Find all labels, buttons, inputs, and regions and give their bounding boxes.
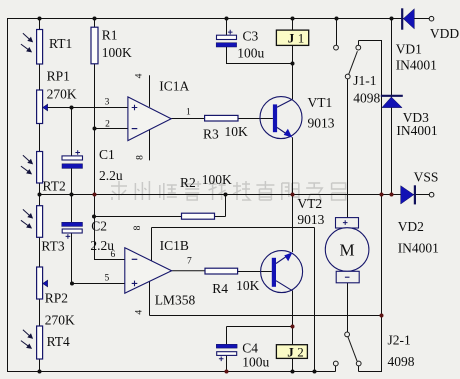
svg-text:RT4: RT4: [47, 334, 70, 349]
transistor Q2 VT2: [261, 251, 303, 293]
relay contact J2-1: [333, 332, 361, 366]
svg-text:8: 8: [133, 225, 143, 230]
svg-text:2: 2: [297, 345, 304, 360]
relay contact J1-1: [334, 45, 361, 79]
transistor Q1 VT1: [260, 97, 302, 139]
wire J1-1 left contact stem: [336, 19, 338, 46]
svg-text:RT1: RT1: [49, 36, 72, 51]
svg-text:R3: R3: [203, 127, 219, 142]
potentiometer RP1: [37, 90, 43, 124]
capacitor C2: [62, 222, 83, 238]
wire left border: [7, 18, 9, 372]
svg-text:J: J: [288, 31, 295, 46]
svg-text:100u: 100u: [242, 355, 269, 370]
wire VT2 emitter up: [292, 195, 294, 253]
pin numbers: [105, 73, 193, 314]
watermark 杭州将睿科技有限公司 (simulated glyph blocks): [111, 181, 346, 200]
wire motor bottom to J2-1 pole: [347, 283, 349, 332]
svg-text:4: 4: [134, 73, 144, 78]
svg-text:4098: 4098: [388, 354, 415, 369]
resistor R4: [205, 268, 238, 274]
wire IC1A pin8 stub: [149, 130, 151, 161]
svg-text:LM358: LM358: [155, 293, 196, 308]
wire IC1B output to R4: [172, 270, 205, 272]
wire IC1B pin8 stub: [151, 228, 153, 261]
svg-text:7: 7: [187, 257, 192, 267]
wire VD3 column: [391, 19, 393, 195]
wire IC1B pin5: [72, 283, 125, 285]
svg-text:1: 1: [186, 108, 191, 118]
light arrows RT3: [21, 209, 32, 228]
wire rail y315: [150, 315, 382, 317]
wiper arrow RP2: [43, 280, 48, 287]
resistor RT4: [37, 326, 43, 359]
svg-text:RT3: RT3: [41, 239, 64, 254]
svg-text:J1-1: J1-1: [353, 73, 376, 88]
svg-text:M: M: [339, 241, 354, 260]
svg-text:C3: C3: [243, 29, 259, 44]
wire right riser: [359, 40, 382, 372]
svg-text:J: J: [287, 345, 294, 360]
svg-text:IN4001: IN4001: [396, 57, 437, 72]
wire C4 top bend: [227, 327, 293, 345]
resistor RT1: [37, 30, 43, 65]
wire C3 column and bend: [226, 19, 293, 64]
svg-text:VT2: VT2: [297, 196, 322, 211]
wire IC1A output to R3: [171, 118, 204, 120]
svg-text:R4: R4: [212, 281, 228, 296]
wire J2-1 right throw stem: [358, 366, 360, 372]
svg-text:C1: C1: [99, 147, 115, 162]
resistor RT3: [37, 206, 43, 238]
svg-text:VSS: VSS: [414, 170, 439, 185]
svg-text:5: 5: [105, 274, 110, 284]
svg-text:J2-1: J2-1: [388, 333, 411, 348]
svg-text:100u: 100u: [237, 46, 264, 61]
svg-text:100K: 100K: [202, 172, 232, 187]
svg-text:100K: 100K: [102, 45, 132, 60]
wire VT1 collector up: [292, 19, 294, 100]
light arrows RT4: [21, 330, 32, 349]
capacitor C1: [62, 150, 83, 168]
svg-text:9013: 9013: [297, 212, 324, 227]
wire C1 C2 column: [71, 108, 73, 284]
svg-text:4: 4: [135, 310, 145, 315]
junction dots black: [38, 17, 394, 374]
svg-text:IC1A: IC1A: [159, 79, 189, 94]
wire mid rail VSS: [40, 194, 430, 196]
wire R1 column: [94, 19, 96, 260]
wire pin2: [95, 128, 128, 130]
resistor R2: [182, 213, 215, 219]
svg-text:270K: 270K: [47, 87, 77, 102]
wire R2 right lead: [215, 195, 226, 217]
capacitor C4: [216, 344, 237, 361]
svg-text:C4: C4: [242, 341, 258, 356]
svg-text:R2: R2: [180, 175, 196, 190]
svg-text:IC1B: IC1B: [160, 238, 189, 253]
svg-text:9013: 9013: [308, 116, 335, 131]
junction dots dark red: [93, 193, 394, 374]
svg-text:R1: R1: [102, 28, 118, 43]
label box J1: [276, 30, 308, 45]
wire J2-1 left throw stem: [335, 366, 337, 372]
wire RP1 wiper to pin3: [47, 107, 128, 109]
wire R3 to VT1 base: [238, 118, 273, 120]
wire VT2 collector down: [292, 291, 294, 372]
wire R2 left lead: [94, 216, 182, 218]
diode VD1: [402, 8, 434, 29]
wiper arrow RP1: [43, 104, 48, 111]
capacitor C3: [216, 30, 236, 47]
svg-text:VD2: VD2: [398, 219, 424, 234]
svg-text:6: 6: [111, 250, 116, 260]
light arrows RT1: [21, 33, 32, 52]
svg-text:IN4001: IN4001: [398, 241, 439, 256]
wire bottom rail right: [359, 371, 382, 373]
wire C4 bottom: [226, 355, 228, 371]
wire IC1A pin4 stub: [149, 75, 151, 107]
resistor R1: [91, 27, 98, 64]
diode VD3: [381, 96, 403, 108]
wire IC1B pin6: [94, 259, 125, 261]
svg-text:8: 8: [135, 155, 145, 160]
svg-text:RT2: RT2: [43, 179, 66, 194]
resistor RT2: [37, 152, 43, 184]
svg-text:RP2: RP2: [45, 291, 68, 306]
wire J1-1 pole to motor: [347, 79, 349, 218]
svg-text:2: 2: [105, 119, 110, 129]
motor M1: [325, 218, 369, 283]
wire IC1B pin8 run: [152, 228, 315, 372]
wire IC1B pin4 stub: [149, 281, 151, 316]
svg-text:VDD: VDD: [430, 26, 459, 41]
light arrows RT2: [21, 155, 32, 174]
wire bottom rail left: [7, 371, 336, 373]
svg-text:C2: C2: [91, 219, 107, 234]
wire VT1 emitter down: [292, 137, 294, 194]
svg-text:10K: 10K: [236, 278, 260, 293]
svg-text:VT1: VT1: [308, 95, 333, 110]
wire left column RT chain: [39, 19, 41, 372]
resistor R3: [205, 115, 238, 121]
svg-text:270K: 270K: [45, 313, 75, 328]
wire top rail: [7, 18, 429, 20]
svg-text:4098: 4098: [353, 91, 380, 106]
svg-text:RP1: RP1: [47, 69, 70, 84]
svg-text:3: 3: [105, 98, 110, 108]
potentiometer RP2: [37, 267, 43, 299]
svg-text:1: 1: [298, 31, 305, 46]
op-amp U2 IC1B: [125, 248, 172, 294]
svg-text:VD1: VD1: [396, 42, 422, 57]
svg-text:10K: 10K: [225, 124, 249, 139]
svg-text:IN4001: IN4001: [396, 123, 437, 138]
svg-text:2.2u: 2.2u: [99, 168, 123, 183]
op-amp U1 IC1A: [128, 97, 171, 141]
diode VD2: [401, 185, 434, 204]
wire R4 to VT2 base: [238, 271, 272, 273]
label box J2: [276, 345, 307, 360]
